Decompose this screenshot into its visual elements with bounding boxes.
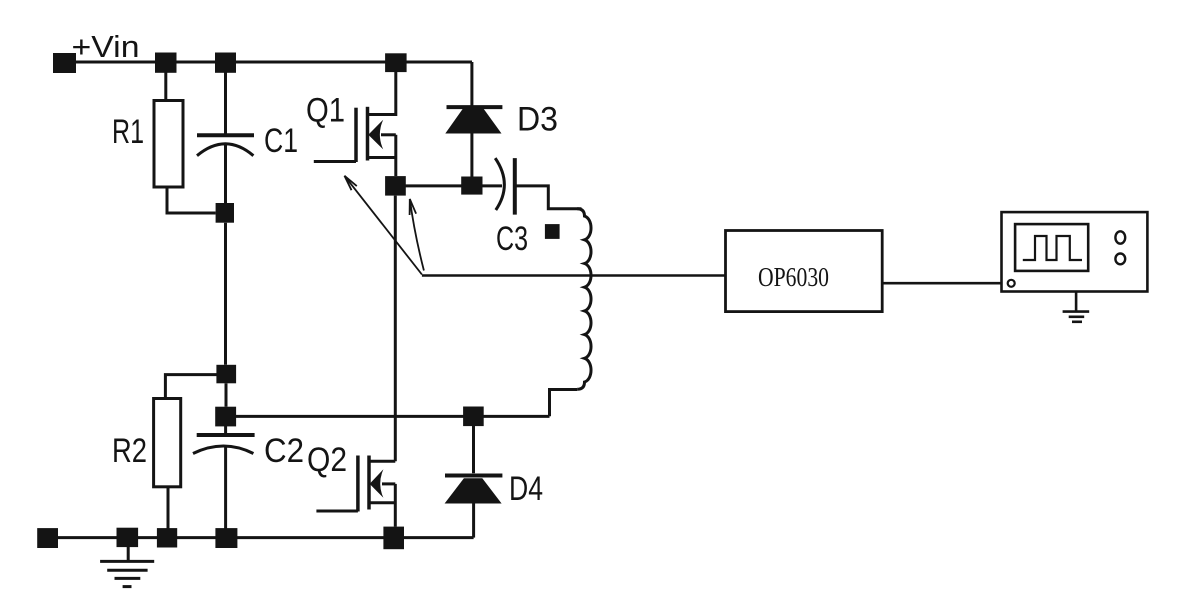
wire bottom horizontal (C2 tap to winding) <box>226 415 550 418</box>
wire winding bottom lead <box>550 390 578 417</box>
svg-text:R2: R2 <box>112 432 147 470</box>
wire top rail +Vin <box>62 61 472 64</box>
wire OP6030 output <box>882 282 1007 285</box>
diode D4 <box>445 425 503 538</box>
inductor winding <box>577 209 591 390</box>
oscilloscope knob 2 <box>1115 254 1125 265</box>
svg-text:+Vin: +Vin <box>72 29 140 64</box>
node phase dot square near C3 <box>545 224 560 239</box>
node junction C2 / bottom-wire tap <box>215 407 236 427</box>
wire R1 bottom lead <box>167 187 216 213</box>
node terminal square bottom-left <box>37 528 58 548</box>
wire left vertical middle <box>224 223 227 365</box>
oscilloscope screen <box>1015 224 1088 271</box>
wire top-rail drop to D3 <box>470 62 473 107</box>
oscilloscope body <box>1002 212 1148 291</box>
node junction top rail Q1 drain tap <box>385 53 407 72</box>
wire R2 bottom lead <box>167 487 170 530</box>
wire R2 top lead <box>165 375 221 399</box>
svg-text:Q1: Q1 <box>306 92 345 130</box>
wire C2 bottom stem <box>224 446 227 530</box>
wire C1 bottom stem <box>224 145 227 204</box>
resistor R2 <box>154 399 181 487</box>
node junction R2 tap <box>216 365 236 384</box>
oscilloscope square wave <box>1023 236 1082 260</box>
oscilloscope knob 1 <box>1115 231 1125 243</box>
svg-text:OP6030: OP6030 <box>758 262 829 292</box>
diode D3 <box>445 107 502 176</box>
node junction top rail C1 tap <box>215 53 236 73</box>
svg-text:D3: D3 <box>517 101 558 139</box>
svg-text:Q2: Q2 <box>307 441 347 479</box>
capacitor C3 curved plate <box>495 158 504 210</box>
wire bottom ground rail <box>48 536 474 539</box>
annotation arrow to switch node <box>410 199 424 271</box>
node junction C2 bottom tap <box>215 528 237 548</box>
ground symbol main <box>100 547 154 587</box>
capacitor C1 top plate <box>197 133 254 137</box>
node junction R1/C1 bottom <box>216 203 234 223</box>
oscilloscope ground <box>1063 292 1090 322</box>
node junction Q2 source tap <box>383 527 404 550</box>
transistor Q1 <box>314 71 396 176</box>
node junction top rail R1 tap <box>155 53 177 73</box>
wire switch node to C3 <box>395 184 502 187</box>
resistor R1 <box>154 101 183 188</box>
capacitor C3 straight plate <box>513 158 517 215</box>
capacitor C2 top plate <box>197 433 255 437</box>
node terminal square top-left <box>53 53 76 73</box>
svg-text:C1: C1 <box>264 122 298 160</box>
wire C2 top stem <box>224 426 227 435</box>
node junction D3 anode <box>461 177 482 195</box>
svg-text:R1: R1 <box>112 113 144 151</box>
capacitor C2 curved plate <box>193 446 253 454</box>
node junction D4 cathode <box>463 407 484 427</box>
node junction ground tap <box>117 528 139 547</box>
wire to OP6030 <box>422 274 726 277</box>
wire C3 to winding top <box>517 186 582 209</box>
node junction switch node (Q1 source) <box>385 176 406 196</box>
annotation arrow to Q1 source <box>345 176 422 275</box>
probe connector circle <box>1008 280 1015 287</box>
capacitor C1 curved plate <box>197 144 253 156</box>
svg-text:D4: D4 <box>509 470 543 508</box>
transistor Q2 <box>316 196 395 527</box>
wire between R2 tap and C2 tap <box>225 383 228 406</box>
block OP6030 <box>726 231 883 312</box>
node junction R2 bottom tap <box>157 528 177 547</box>
wire R1 top lead <box>164 72 167 101</box>
svg-text:C3: C3 <box>496 220 528 258</box>
wire C1 top stem <box>224 72 227 135</box>
svg-text:C2: C2 <box>264 432 304 470</box>
